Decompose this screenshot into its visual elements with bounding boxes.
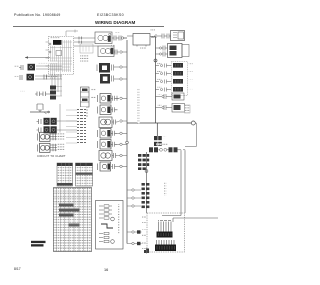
fan motor M7 [98,129,112,139]
wire (rows E F feed) [57,104,77,133]
connector CN9 [112,120,117,125]
pump P1 (double circle) [99,151,112,161]
dispenser DU1 (double box) [168,44,190,58]
connector CN8 [111,107,118,112]
wire [117,155,127,157]
control board box CB (dashed enclosure bottom right) [147,213,185,252]
board edge labels [142,216,146,250]
wire (row G leads) [50,134,63,139]
node a2 [49,51,51,53]
node e1 [155,35,157,37]
inset jumper wire [101,224,113,228]
connector CN11 [112,153,117,158]
connector CN17 row5 [156,72,172,76]
heater H2 (framed element) [100,74,114,84]
fan motor M2 (second fan) [98,46,114,57]
connector CN19 row7 [156,88,172,92]
connector CN14 (row2) [156,46,168,51]
compressor detail box (inset) [96,201,124,250]
node g2 [132,197,134,199]
node g1 [132,189,134,191]
inset item 3b [99,217,109,219]
node c5 [120,154,122,156]
node c2 [120,120,122,122]
connector CN15 (row3) [156,52,168,57]
wire color table (main table) [54,188,92,252]
svg-text:Publication No. 19008649: Publication No. 19008649 [14,13,60,17]
legend table A [57,163,73,186]
wire (PB1 to fan row) [74,38,98,46]
lamp L3 and lamp L4 (row F dark pair) [37,126,57,133]
sensor cluster SC (four tiny dark squares) [154,136,162,146]
bus R2 (freezer door bus) [146,152,148,213]
node c3 [120,132,122,134]
wire (line to power plug) [127,122,191,124]
svg-text:CIRCUIT TO CHART: CIRCUIT TO CHART [37,154,66,158]
connector CN16 row4 [156,64,172,68]
heater bank HB (rows of dark cells) [172,62,188,96]
node g5 [132,242,134,244]
svg-text:WIRING DIAGRAM: WIRING DIAGRAM [95,20,135,25]
wire loop (routing rectangle) [80,44,93,53]
power control box PB1 (dashed enclosure top-left) [49,37,74,75]
tick marks left of PB1 [46,42,49,66]
node b3 [120,66,122,68]
wire (top chain) [127,35,156,38]
inset item 4 [99,232,109,234]
ground symbol G1 (bracket row D) [30,104,50,114]
node c3b [120,143,122,145]
svg-text:16: 16 [104,268,108,272]
node b4 [120,78,122,80]
connector stack CS2 [142,183,150,208]
connector CN12 [111,164,127,169]
legend table B [76,163,93,186]
row value labels [157,63,162,106]
wiring label strip (below damper) [77,107,86,145]
bus R1 (right vertical bus) [156,37,158,136]
wire [117,143,127,145]
svg-text:8/17: 8/17 [14,267,21,271]
label row A [38,62,58,64]
label row C [20,90,25,92]
thermistor TH1 row8 [156,93,185,100]
node e2 [154,59,157,62]
inset item 5 [99,236,109,238]
inset item 6 [99,240,109,242]
node d3 [48,111,50,113]
power plug PL1 [191,121,195,125]
connector CN10 [111,131,117,136]
wire [122,97,127,99]
cable run CR (tall double line) [162,151,218,222]
svg-text:3M: 3M [151,35,155,39]
label row G [57,133,65,141]
node on bus [126,141,129,144]
wire (PB1 internal verticals) [50,40,72,79]
note text block (bold two lines) [31,241,46,247]
valve V1 (small box row) [98,162,111,171]
transformer T1 (dark stack) [50,86,56,100]
fan motor M1 (evaporator fan, top) [95,32,112,44]
inset node d2 [111,240,115,244]
connector J1 (pin header and block) [157,219,173,238]
inset item 1 [99,205,112,207]
wire [117,132,127,134]
connector CN4 [44,75,47,80]
node g3 [132,205,134,207]
wire (plug down to cable run) [185,123,196,147]
auger motor M4 (row H) [38,143,51,152]
label row H [57,144,65,152]
hatched label block [80,54,89,62]
svg-text:EI23BC35KS0: EI23BC35KS0 [97,13,124,17]
wire (T1 taps) [56,87,62,97]
connector CN18 row6 [156,80,172,84]
inset item 3 [99,213,112,215]
misc tiny labels [110,30,193,90]
lamp L1 and lamp L2 (row E dark pair) [37,118,57,125]
switch S2 (left row B) [20,74,34,81]
harness label vertical [164,182,166,196]
ice maker IM1 (top right box) [171,31,185,41]
fan motor M5 [98,94,112,104]
connector stack CS1 [138,154,149,170]
switch S1 (left row A) [19,64,35,71]
wire (M1 row to left bus) [122,38,127,52]
vertical harness label [138,88,140,124]
wire (H1 H2 to bus) [114,67,127,79]
node f1 [145,170,148,173]
ice fan motor M3 (row G) [38,132,51,141]
connector CN10b [111,142,117,147]
door switch row DR [149,147,185,152]
header rule [13,25,164,28]
connector CN2 (pair after M1) [112,36,127,41]
connector CN3 [114,50,119,55]
relay K1 (small box in PB1) [56,51,62,56]
connector CN1 (ticks on wires) [79,37,82,44]
connector CN7 [111,96,119,101]
label above door row [156,143,168,145]
label below PB1 [46,76,58,78]
node b1 [121,37,123,39]
wire (row H leads) [50,145,63,150]
wire (verticals dropping from PB1) [52,74,61,96]
label S2 [14,75,19,77]
connector CN13 [158,34,171,39]
node c1 [120,97,122,99]
damper control D1 (tall segmented component) [81,87,96,116]
thermostat row C symbols [35,92,50,97]
wire (row B to center) [35,76,62,79]
bus L1 (left vertical bus) [126,40,128,244]
label S1 [14,65,19,67]
inset item 2 [99,209,112,211]
node a1 [49,43,51,45]
node b2 [120,51,122,53]
heater H1 (framed element) [97,63,114,73]
connector CN5 [53,133,56,140]
wire [117,121,127,122]
connector J2 (pin row and block) [155,240,176,251]
inset vertical label [118,204,120,234]
compressor CP1 (double circle) [99,117,112,128]
inset node d1 [111,217,115,221]
connector CN6 [53,144,56,151]
wire (top route from PB1 to chain) [66,30,78,37]
wire (row A to center) [36,66,62,69]
fan motor M6 [98,105,112,115]
terminal block TB1 (dark blob in PB1) [53,40,62,45]
wire (arrow pointer) [25,57,50,59]
fan motor M8 [98,140,112,150]
relay K2 (box on top chain) [133,34,155,47]
node g4 [132,231,134,233]
thermistor TH2 row9 [156,104,191,114]
label PB1 top [50,37,60,39]
